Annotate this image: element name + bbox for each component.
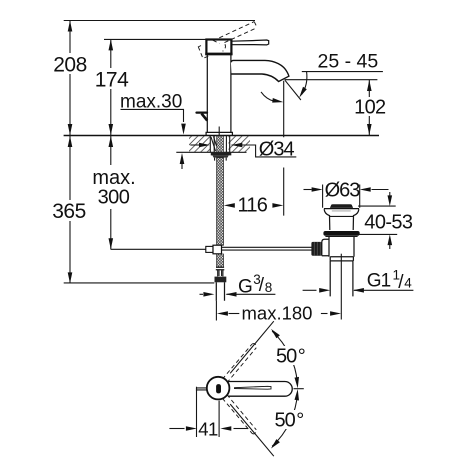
spout outlet angled reference line [285,80,301,100]
mounting nut and horseshoe washer [211,153,232,156]
drain flange Ø63 [323,231,359,236]
dimension line 208/365 vertical [69,21,71,284]
extension of pipe edge for max.180 [215,301,217,321]
svg-text:Ø63: Ø63 [325,180,361,202]
horizontal ray stub right of handle [294,388,304,390]
svg-text:25 - 45: 25 - 45 [318,51,379,73]
svg-text:°: ° [296,410,304,432]
pop-up rod knob at rear of body [197,111,208,113]
label 365 [51,200,87,221]
lever handle horizontal [232,40,269,45]
mounting deck surface line [64,135,379,137]
svg-text:max.: max. [92,167,135,189]
ray at -50deg [230,404,274,456]
head bottom heavy edge [205,53,232,56]
svg-text:40-53: 40-53 [364,212,413,234]
label 174 [94,68,130,89]
flexible hose lower part [217,254,224,267]
arrow max.30 bottom (up) at deck underside [181,164,183,169]
dimension max.180 [229,313,240,315]
knurled adjuster knob [311,242,321,256]
arc arrowhead upper at ray [271,329,280,338]
faucet centerline tick at base [218,127,220,136]
svg-text:max.180: max.180 [242,303,313,324]
dashed butt of raised lever [198,47,209,59]
handle capsule (plan) [228,382,292,397]
arrow max300 bottom (down) at rod [109,238,114,249]
arrow 208 top (up) [68,21,73,32]
drain upper body shoulder [324,208,359,210]
arc arrowheads at horizontal [295,377,300,389]
svg-text:50: 50 [275,410,296,432]
pop-up rod behind body (plan) [197,387,207,391]
G3/8 connection tail pipe [216,282,224,300]
cartridge dot [216,384,221,393]
svg-text:50: 50 [276,346,297,368]
svg-text:G1: G1 [367,271,391,292]
angle arc upper [272,331,297,384]
upper 50 deg label [274,346,308,365]
extension line top of raised lever (208) [64,20,255,22]
mounting studs below nut [215,158,227,161]
pop-up horizontal rod to drain [222,247,312,250]
spout outlet reference vertical line [283,81,285,216]
pop-up rod coupler [206,246,213,252]
ray at +50deg [230,321,274,373]
lever handle raised dashed position [219,22,254,38]
svg-text:300: 300 [98,187,130,209]
svg-text:Ø34: Ø34 [259,138,295,160]
svg-text:4: 4 [404,276,412,291]
arrow 102 bottom (down) [367,124,372,135]
arrow 102 top (up) [367,80,372,91]
drain centerline [340,254,342,320]
faucet column body [207,55,231,133]
swivel arc arrow to vertical line [261,92,275,101]
arc arrowhead lower at ray [271,439,280,448]
label max.300 [91,165,138,209]
dimension Ø63 [323,185,360,208]
lever slot in handle [235,386,272,389]
extension line bottom of hose (365) [64,282,215,284]
arrow 174 bottom (down) at deck [109,124,114,135]
faucet head cartridge block [206,40,231,55]
dimension G1 1/4 [303,289,317,291]
svg-text:208: 208 [53,54,87,77]
svg-text:°: ° [298,346,306,368]
dimension 116 arrows and label [224,203,235,208]
svg-text:8: 8 [265,280,273,295]
dimension 102 vertical [368,80,370,135]
dimension 41 [196,388,198,437]
deck section hatching left [189,136,211,152]
label 208 [52,53,88,74]
drain side port for rod [322,239,329,255]
lower 50 deg label [272,410,306,429]
drain body bottom rim [330,257,353,261]
deck section hatching right [229,136,251,152]
arrow 365 bottom (down) [68,272,73,283]
threaded shank through deck [210,136,229,153]
label Ø34 with leader [232,145,297,157]
flexible supply hose (braided) upper part [217,158,224,246]
svg-text:102: 102 [354,97,386,119]
angle arc lower [272,393,297,446]
dimension G3/8 [200,293,204,295]
hose connection nut G3/8 [215,277,227,283]
mounting deck underside line [176,151,246,153]
dashed lever plan +50deg [222,344,252,379]
extension line pop-up rod level (max.300) [111,248,206,250]
leader arc from 25-45 to angled line [302,72,307,95]
dimension line 174/max300 vertical [110,39,112,249]
dimension 40-53 [358,205,396,207]
arrow 208 bottom (down) at deck [68,124,73,135]
dashed lever plan -50deg [222,398,252,433]
arrow max.30 top (down) at deck top [181,124,186,135]
svg-text:365: 365 [52,200,86,223]
arrow max300 top (up) at deck [109,136,114,147]
faucet base escutcheon [206,132,232,135]
spout [231,60,289,81]
shank inner thread diagonals [211,137,217,152]
svg-text:G: G [238,277,253,298]
drain body seam line [330,215,354,217]
drain dome cap [330,204,353,208]
drain lower body [329,237,354,257]
svg-text:41: 41 [198,418,218,439]
svg-text:174: 174 [95,69,129,92]
drain tailpipe G1 1/4 [330,261,353,297]
dashed pivot arc inside head [223,44,226,51]
drain upper body sides [324,209,359,230]
extension line top of faucet head (174) [104,38,206,40]
arrow 174 top (up) [109,39,114,50]
svg-text:116: 116 [238,194,268,216]
reference line at outlet height [285,79,378,81]
hose end fitting collar [216,267,225,269]
faucet body circle (plan) [207,377,230,400]
arrow 365 top (up) at deck [68,136,73,147]
